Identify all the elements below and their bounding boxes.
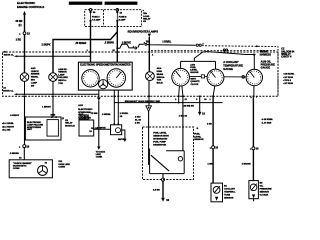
label fuel gauge sub: [191, 79, 201, 86]
svg-text:ELECTRONIC: ELECTRONIC: [78, 109, 93, 111]
svg-text:.5 BR/BL: .5 BR/BL: [102, 114, 112, 116]
label 2 BK/PK: [42, 44, 51, 46]
label A1 instrument cluster (bottom left): [3, 87, 14, 93]
svg-text:FUEL: FUEL: [194, 134, 200, 136]
svg-text:CONN: CONN: [13, 168, 20, 170]
svg-text:d1-1 RD/BL: d1-1 RD/BL: [2, 123, 14, 125]
label pin 16 in relay box: [89, 131, 92, 133]
svg-text:.5 BR/GY: .5 BR/GY: [10, 115, 20, 117]
svg-text:COOLANT: COOLANT: [224, 187, 235, 190]
wire oil gauge bottom drop: [253, 86, 255, 96]
svg-text:TERIOR: TERIOR: [58, 72, 67, 74]
node junction fuse F1 / bus: [90, 39, 92, 41]
label 1 BR/GN: [242, 164, 251, 166]
ground symbol in temp sensor: [215, 197, 218, 201]
label ground G1 number: [202, 112, 205, 116]
node arrow up to electronic engine controls: [23, 11, 26, 15]
svg-text:ENGINE: ENGINE: [31, 74, 40, 76]
svg-text:LOAD: LOAD: [143, 15, 150, 18]
svg-text:.5 BR/RD: .5 BR/RD: [10, 153, 20, 155]
wire lamp2 to ground bus: [52, 81, 54, 94]
connector a/18 in lamp1 feed: [23, 32, 26, 35]
svg-text:◄17 RD/8: ◄17 RD/8: [283, 82, 294, 85]
connector pads buzzer top: [113, 124, 119, 126]
wire bus to lamp2: [53, 32, 117, 73]
label left pin rows: [2, 123, 15, 131]
wire tank ground stub: [162, 174, 164, 179]
connector a/18 in check engine drop: [23, 145, 26, 148]
svg-text:A1/3: A1/3: [31, 67, 36, 70]
label d pin rows right of oil drop: [262, 119, 274, 124]
node junction wire W / bulb feed: [148, 44, 150, 46]
svg-text:.5 BK/PK: .5 BK/PK: [104, 43, 114, 45]
wire pin14 drop to sub wire: [113, 97, 115, 125]
gauge speedometer dial: [82, 70, 99, 87]
label 1 BR 18: [179, 116, 188, 118]
label 1 RD/BL 18 right of relay feeds: [120, 113, 129, 118]
label G right of tank top: [197, 128, 199, 130]
svg-text:CHECK: CHECK: [31, 71, 39, 73]
wire fuel gauge drop 2 to tank sender: [182, 97, 184, 151]
label fuel level sensor right: [194, 134, 204, 141]
svg-text:FUSE 5: FUSE 5: [92, 17, 100, 19]
svg-text:◄TPS 8: ◄TPS 8: [283, 79, 292, 82]
electronic speedometer box U1: [78, 62, 132, 90]
label check engine warning lamp: [31, 67, 40, 87]
label 1 BR temp lower: [208, 164, 213, 166]
label 30: [146, 41, 149, 43]
svg-text:GN/YE: GN/YE: [118, 139, 125, 141]
svg-text:INTEGRATED: INTEGRATED: [153, 137, 167, 140]
wire oil sensor drop: [252, 97, 254, 147]
svg-text:GAUGE: GAUGE: [261, 66, 271, 70]
svg-text:WARN-: WARN-: [31, 76, 39, 79]
svg-text:d–18 RD/BL: d–18 RD/BL: [262, 119, 274, 121]
wire speedo box to ground bus stub: [98, 90, 100, 97]
label X BK/YE: [91, 128, 98, 130]
svg-text:2.5 BR: 2.5 BR: [153, 189, 160, 191]
connector circle tank ground: [162, 178, 165, 181]
wire fuel gauge riser: [180, 61, 182, 68]
svg-text:LEVEL: LEVEL: [194, 136, 202, 138]
svg-text:GAUGE: GAUGE: [190, 71, 199, 74]
wire internal feed: [17, 55, 91, 57]
svg-text:2 BK: 2 BK: [135, 123, 140, 125]
svg-text:31 30: 31 30: [51, 115, 56, 117]
gauge oil pressure: [246, 69, 262, 85]
symbol steering wheel telltale: [99, 80, 108, 89]
node junction fuel drop / sub wire: [178, 102, 180, 104]
wire hot feed from arrow: [24, 14, 26, 32]
svg-text:INDICA-: INDICA-: [58, 79, 67, 82]
wire fuel gauge bottom stub 2: [182, 86, 183, 96]
svg-text:HOT IN RUN-START: HOT IN RUN-START: [110, 2, 133, 5]
svg-text:ING: ING: [31, 80, 35, 82]
wire gauge top bus: [181, 60, 216, 62]
svg-text:INDICA-: INDICA-: [157, 76, 166, 79]
wire sub-cluster horizontal: [114, 102, 222, 104]
svg-text:7.5 AMP: 7.5 AMP: [92, 18, 101, 21]
wire S solid to main harness: [203, 52, 253, 55]
label 0.5 BR/GY: [10, 115, 20, 117]
svg-text:GAUGE: GAUGE: [223, 67, 233, 71]
wire W second bump: [138, 44, 144, 48]
label gas relay header: [79, 113, 91, 121]
svg-text:FUEL PUMP: FUEL PUMP: [153, 141, 166, 143]
label load relay K1: [143, 10, 151, 23]
label lamp failure monitoring unit: [27, 122, 44, 131]
label 1 BR ground: [189, 106, 194, 108]
svg-text:1 BK/YE: 1 BK/YE: [122, 43, 131, 45]
svg-text:.75 WS: .75 WS: [90, 113, 98, 115]
svg-text:DATA LINK: DATA LINK: [58, 163, 70, 166]
node junction sub wire / bulb drop: [148, 102, 150, 104]
node arrow down diagnostic: [97, 146, 100, 150]
oil pressure sensor B5: [249, 181, 259, 199]
svg-text:A1/2: A1/2: [78, 104, 83, 107]
ground symbol G1: [198, 112, 201, 116]
svg-text:1 RD/BL: 1 RD/BL: [120, 113, 129, 115]
node junction fuse F2 tap: [116, 47, 118, 49]
label relay module rows: [65, 120, 75, 127]
svg-text:(F): (F): [19, 25, 22, 27]
label REAR AND REPEATER LAMPS caption: [128, 29, 159, 33]
node arrow right on S: [253, 54, 256, 56]
lamp high beam indicator bulb: [146, 72, 155, 81]
label bottom pin numbers: [175, 97, 258, 101]
connector d (first): [135, 47, 137, 49]
ground symbol G2: [161, 198, 165, 202]
wire lamp1 feed into cluster: [24, 35, 26, 73]
wire into check engine connector box: [23, 148, 25, 160]
connector circle on temp-oil link: [242, 76, 245, 79]
label fuse F2: [119, 13, 127, 22]
label high beam indicator bulb: [157, 67, 166, 85]
svg-text:0-5 BAR: 0-5 BAR: [260, 194, 269, 197]
svg-text:2 BK/PK: 2 BK/PK: [42, 44, 51, 46]
svg-text:A1/4: A1/4: [157, 67, 162, 70]
svg-text:TOR: TOR: [157, 80, 162, 82]
label 0.75 WS/RD: [90, 113, 98, 115]
wire bulb drop to diamond: [148, 97, 150, 106]
svg-text:1 BR: 1 BR: [208, 164, 213, 166]
wire riser from gauge bus to S: [194, 52, 203, 61]
header bar HOT IN RUN AND START: [105, 2, 138, 5]
label fuel tank unit text: [153, 132, 169, 146]
label K2 right of box: [62, 118, 65, 120]
connector d pair on D2: [223, 49, 227, 51]
instrument cluster A1 dashed enclosure: [3, 52, 279, 96]
svg-text:SENSOR: SENSOR: [260, 192, 270, 194]
fuse box dashed enclosure: [85, 10, 142, 27]
svg-text:TOR: TOR: [58, 83, 63, 85]
connector diamond sender coupling: [146, 106, 152, 112]
svg-text:UNIT: UNIT: [27, 129, 33, 131]
label ground G2 number: [166, 198, 169, 202]
label 1 BR/BL: [162, 42, 172, 44]
label 0.75 RD/GN: [75, 43, 87, 45]
wire pin15 drop to relay block: [117, 97, 119, 125]
svg-text:TEMPERA-: TEMPERA-: [224, 190, 236, 193]
label 0.5 BR/BL: [102, 114, 112, 116]
svg-text:1 BR/GN: 1 BR/GN: [242, 164, 251, 166]
svg-text:QUARTZ: QUARTZ: [191, 80, 201, 83]
fuel sender B4 symbol: [150, 149, 185, 174]
svg-text:BL 18: BL 18: [135, 120, 142, 122]
wire dashed continuation D2: [151, 49, 277, 51]
svg-text:LAMP: LAMP: [58, 73, 65, 76]
label 1 BK/YE: [122, 43, 131, 45]
label oil pressure sensor: [260, 183, 273, 197]
svg-text:d2-1 RD/GY: d2-1 RD/GY: [2, 126, 15, 128]
svg-text:A1/5 EX-: A1/5 EX-: [58, 68, 67, 71]
wire bulb to cluster bottom: [148, 81, 150, 97]
label pin 31 30: [51, 115, 56, 117]
svg-text:CAVITY 4: CAVITY 4: [281, 56, 292, 59]
label GN/YE: [118, 139, 125, 141]
svg-text:◄17 RD/4: ◄17 RD/4: [283, 76, 294, 79]
wire temp-oil gauge link: [224, 76, 246, 78]
check engine connector box X11: [9, 160, 52, 178]
wire lamp1 to ground bus: [24, 81, 26, 94]
label oil pressure gauge: [261, 59, 276, 69]
wire diag line from triangle: [98, 100, 100, 146]
fuse F1: [89, 8, 92, 21]
buzzer block X25: [111, 125, 122, 135]
svg-text:CONN: CONN: [96, 156, 103, 158]
svg-text:TURE: TURE: [224, 194, 230, 196]
node junction lamp2/internal feed: [52, 55, 54, 57]
gauge tachometer dial: [107, 69, 125, 87]
lamp exterior lamp failure indicator: [49, 73, 58, 82]
coolant temperature sensor B1: [211, 183, 223, 202]
label d markers: [133, 43, 146, 49]
connector a/18 oil drop: [252, 147, 255, 150]
label WIRING HARNESS: [260, 52, 272, 57]
wire buzzer output right and down: [122, 130, 125, 139]
svg-text:SALOON 94: SALOON 94: [281, 50, 295, 53]
wire fuel gauge drop 1: [178, 97, 180, 103]
svg-text:WIRE JT: WIRE JT: [281, 54, 291, 56]
node arrow down to rear lamps: [148, 34, 151, 38]
connector d (second): [145, 43, 147, 45]
svg-text:.5 GN/YE: .5 GN/YE: [96, 127, 106, 129]
label 15: [19, 158, 22, 160]
wire sender feed down to tank: [148, 111, 150, 164]
label check engine connector: [13, 163, 32, 170]
wire speedo box pin stubs: [114, 90, 118, 96]
label X11 data link: [58, 161, 70, 168]
label to data link connector: [96, 151, 106, 159]
wire dashed page boundary: [277, 46, 279, 96]
svg-text:INSTR CL: INSTR CL: [4, 54, 15, 56]
node junction lamp1/ground bus: [24, 93, 26, 95]
label coolant temperature sensor: [224, 185, 236, 199]
label exhaust gas recirculation indicator caption: [125, 100, 161, 103]
wire temp gauge bottom stub: [213, 86, 215, 96]
wire temp gauge riser: [215, 61, 217, 69]
svg-text:ELECTRONIC SPEEDOMETER/TACHOME: ELECTRONIC SPEEDOMETER/TACHOMETER: [80, 64, 130, 67]
label coolant temperature gauge: [223, 60, 243, 71]
svg-text:PRESSURE: PRESSURE: [260, 189, 273, 191]
svg-text:1 BR/BL: 1 BR/BL: [162, 42, 172, 44]
label top pin numbers: [87, 50, 154, 57]
svg-text:MODULE: MODULE: [65, 125, 75, 127]
svg-text:RELAY: RELAY: [143, 17, 151, 20]
label 1 RD/BL 18 tank feed: [135, 117, 142, 125]
label 28 BR: [184, 105, 191, 107]
label A1 instrument cluster (top left): [4, 50, 15, 56]
svg-text:SENSOR: SENSOR: [224, 197, 234, 199]
svg-text:SENSOR: SENSOR: [194, 139, 204, 141]
svg-text:1 BR/GY: 1 BR/GY: [42, 107, 51, 109]
wire lamp2 drop to monitor unit: [52, 97, 54, 117]
connector C circles: [196, 44, 201, 46]
wire oil gauge riser: [253, 55, 255, 70]
node junction oil riser / S: [253, 54, 255, 56]
gauge coolant temperature: [207, 69, 224, 86]
wire temp drop lower: [212, 149, 214, 183]
svg-text:INSTR CL: INSTR CL: [3, 90, 14, 92]
wire W continues to connector C: [147, 44, 196, 47]
label cluster right pin rows: [283, 73, 296, 86]
svg-text:1 RD: 1 RD: [207, 124, 212, 126]
wire temp sensor drop: [212, 97, 214, 146]
label electronic speedometer header: [80, 64, 130, 67]
label 1 RD: [16, 39, 22, 41]
svg-text:HOT AT ALL TIMES: HOT AT ALL TIMES: [75, 2, 97, 5]
wire fuse F2 output: [116, 22, 118, 63]
svg-text:G: G: [197, 128, 199, 130]
svg-text:REAR/REPEATER LAMPS: REAR/REPEATER LAMPS: [128, 29, 159, 33]
symbol connector face X11: [38, 166, 48, 176]
node arrow right on D1: [256, 45, 259, 47]
svg-text:CLOCK: CLOCK: [191, 84, 199, 86]
connector pad cluster top pin (fuse1): [90, 51, 92, 53]
svg-text:BULB: BULB: [157, 83, 163, 85]
lamp check engine warning: [20, 73, 29, 82]
connector pads cluster bottom: [24, 96, 255, 98]
svg-text:HIGH: HIGH: [157, 71, 163, 73]
svg-text:OIL: OIL: [260, 186, 264, 188]
svg-text:.75 RD/GN: .75 RD/GN: [75, 43, 87, 45]
svg-text:LAMP: LAMP: [31, 81, 38, 84]
wire fuel gauge bottom stub 1: [178, 86, 181, 96]
node junction lamp2/ground bus: [52, 93, 54, 95]
svg-text:EXHAUST GAS RECIRC IND: EXHAUST GAS RECIRC IND: [125, 100, 161, 103]
connector link block: [201, 75, 204, 78]
svg-text:d–17 RD/8: d–17 RD/8: [262, 123, 273, 125]
svg-text:5 AMP: 5 AMP: [119, 18, 126, 21]
svg-text:SENSOR WITH: SENSOR WITH: [153, 135, 169, 137]
label 0.5 BK/PK: [104, 43, 114, 45]
wire fuel-temp gauge link: [189, 76, 207, 78]
node arrow left on internal ground wire: [14, 93, 18, 95]
label 2.5 BR: [153, 189, 160, 191]
label pin 16: [45, 163, 48, 165]
header bar HOT AT ALL TIMES: [69, 2, 103, 5]
connector pads monitor unit top: [51, 116, 57, 118]
label 0.5 BR/RD: [10, 153, 20, 155]
label 1 BR/GY: [42, 107, 51, 109]
svg-text:FUEL LEVEL: FUEL LEVEL: [153, 132, 167, 134]
wire fuse F1 output: [90, 22, 92, 63]
label fuel level gauge: [190, 63, 199, 74]
label d at connector C: [202, 43, 204, 45]
fuse F2: [116, 8, 119, 21]
label 1 RD temp drop: [207, 124, 212, 126]
svg-text:FUSE 8: FUSE 8: [119, 17, 127, 19]
svg-text:1 RD/: 1 RD/: [135, 117, 141, 119]
electronic lamp failure monitoring unit K1: [25, 117, 61, 140]
wire tank ground to earth: [162, 181, 164, 198]
wire dashed continuation D1: [202, 45, 276, 48]
wire relay K27 to buzzer block: [94, 128, 111, 130]
svg-text:◄18 RD/BL: ◄18 RD/BL: [283, 73, 296, 76]
svg-text:BEAM: BEAM: [157, 73, 164, 76]
label A1/2 electronic speedometer column: [78, 104, 93, 119]
node arrow left on internal feed wire: [14, 55, 18, 57]
label ELECTRONIC ENGINE CONTROLS: [17, 1, 44, 9]
wire rear lamp tap down to high beam bulb: [148, 37, 150, 72]
fuel tank sender dashed enclosure: [143, 127, 194, 180]
svg-text:RELAY: RELAY: [65, 122, 73, 125]
svg-text:RESERVOIR: RESERVOIR: [153, 144, 166, 146]
gauge fuel level A1/8: [172, 68, 190, 86]
label 30 RD: [16, 20, 23, 27]
node junction lamp1/internal feed: [24, 55, 26, 57]
connector a/18 temp drop: [212, 146, 215, 149]
label C2 harness continuation block: [281, 49, 295, 59]
svg-text:CONN: CONN: [58, 167, 65, 169]
svg-text:DIAGNOSTIC: DIAGNOSTIC: [13, 164, 27, 167]
node arrow down buzzer output: [123, 139, 126, 142]
connector pad cluster top pin (fuse2): [116, 51, 118, 53]
relay box K27: [79, 120, 94, 136]
svg-text:1 BR: 1 BR: [189, 106, 194, 108]
connector triangle diag output: [97, 97, 101, 100]
svg-text:FAILURE: FAILURE: [58, 76, 68, 79]
connector pad cluster top pin (bulb): [148, 51, 150, 53]
svg-text:d3-1 BR: d3-1 BR: [2, 130, 11, 132]
svg-text:30 RD: 30 RD: [16, 20, 23, 23]
wire W from fuse F2 tap eastward with bumps: [117, 44, 134, 48]
label 0.5 GN/YE: [96, 127, 106, 129]
svg-text:HARNESS: HARNESS: [260, 53, 272, 56]
wire lamp1 drop to check engine connector: [24, 97, 26, 144]
label fuse F1: [92, 12, 101, 21]
label exterior lamp failure indicator: [58, 68, 68, 85]
wire internal ground bus: [17, 93, 99, 95]
svg-text:ENGINE CONTROLS: ENGINE CONTROLS: [17, 5, 44, 9]
relay sub-block inside monitor unit: [47, 120, 58, 137]
wire oil drop lower: [252, 150, 254, 181]
wire ground drop G1: [199, 97, 201, 112]
svg-text:1 RD: 1 RD: [16, 39, 22, 41]
svg-text:1 BR 18: 1 BR 18: [179, 116, 188, 118]
ground symbol in oil sensor: [252, 194, 255, 201]
